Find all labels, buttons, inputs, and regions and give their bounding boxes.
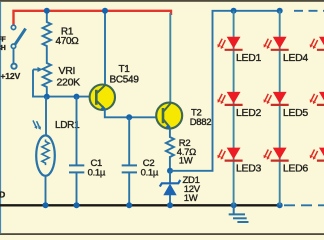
wire: switch to +12V terminal [13, 48, 15, 63]
svg-text:LED2: LED2 [236, 107, 262, 119]
wire: dashed rail continuation top [294, 10, 324, 12]
svg-text:LED1: LED1 [236, 52, 262, 64]
wire: base line to T1 [47, 96, 90, 98]
node C2 ground [126, 202, 132, 208]
wire: T2 collector [169, 13, 171, 103]
LDR1 [36, 135, 55, 175]
left frame line [0, 2, 1, 233]
switch S1 bottom contact [11, 44, 15, 48]
node R2/ZD1/LED junction [167, 168, 173, 174]
svg-text:BC549: BC549 [110, 74, 140, 85]
svg-text:1W: 1W [179, 155, 193, 166]
svg-text:1W: 1W [184, 193, 198, 204]
LED D8 LED8 [310, 92, 324, 105]
transistor T1 BC549 [90, 85, 115, 111]
LED D5 LED5 [264, 92, 309, 119]
svg-text:+12V: +12V [0, 71, 20, 81]
LED D3 LED3 [217, 148, 261, 175]
LED D6 LED6 [264, 148, 309, 175]
top border line [0, 0, 324, 2]
svg-text:LED5: LED5 [283, 107, 309, 119]
svg-text:0.1µ: 0.1µ [88, 167, 106, 178]
node C1 ground [74, 202, 80, 208]
svg-text:GND: GND [0, 190, 5, 200]
switch S1 top contact [11, 25, 15, 29]
ground symbol [229, 205, 249, 222]
switch S1 lever [15, 29, 25, 45]
wire: dashed rail continuation bottom [284, 204, 324, 206]
svg-text:0.1µ: 0.1µ [141, 167, 159, 178]
LDR1 light arrows [33, 120, 41, 129]
resistor R2 [166, 129, 174, 171]
svg-text:LED6: LED6 [283, 163, 309, 175]
node C1 junction [74, 94, 80, 100]
svg-text:220K: 220K [57, 76, 81, 88]
svg-text:VRI: VRI [59, 65, 76, 77]
ground rail [0, 204, 281, 206]
LED D7 LED7 [310, 37, 324, 50]
node R1 on rail [44, 8, 50, 14]
capacitor C2 [128, 117, 130, 165]
LED D9 LED9 [310, 148, 324, 161]
node LDR ground [43, 202, 49, 208]
zener diode ZD1 [169, 171, 171, 183]
svg-text:D882: D882 [190, 117, 212, 128]
capacitor C1 [76, 97, 78, 165]
LED D2 LED2 [217, 92, 261, 119]
potentiometer VRI [43, 50, 51, 97]
wire: LDR1 to ground [45, 176, 47, 206]
node T1 collector on rail [102, 8, 108, 14]
transistor T2 D882 [156, 103, 182, 129]
node VR1/LDR junction [44, 94, 50, 100]
svg-text:LED3: LED3 [236, 163, 262, 175]
LED D4 LED4 [264, 37, 309, 64]
LED D1 LED1 [217, 37, 261, 64]
node LED col2 ground [277, 202, 283, 208]
svg-text:470Ω: 470Ω [56, 36, 80, 47]
wire LED column 1 [233, 11, 235, 206]
svg-text:SWITCH: SWITCH [0, 45, 6, 52]
wire: LED supply feed [170, 11, 280, 171]
+12V terminal [11, 64, 16, 69]
resistor R1 [43, 11, 51, 50]
VRI wiper arrow [33, 69, 39, 71]
wire: wiper to bottom of VRI [33, 70, 47, 97]
wire: junction to LDR1 [45, 97, 47, 136]
node C2 junction [126, 114, 132, 120]
node ZD1 ground [167, 202, 173, 208]
node LED col1 ground [231, 202, 237, 208]
node LED column 2 top [277, 8, 283, 14]
node LED column 1 top [231, 8, 237, 14]
wire LED column 2 [279, 11, 281, 206]
wire: T1 emitter to T2 base [105, 110, 157, 118]
wire: top positive red rail [14, 11, 172, 25]
bottom border line [0, 233, 324, 235]
wire: T1 collector to rail [104, 11, 106, 85]
svg-text:LED4: LED4 [283, 52, 309, 64]
